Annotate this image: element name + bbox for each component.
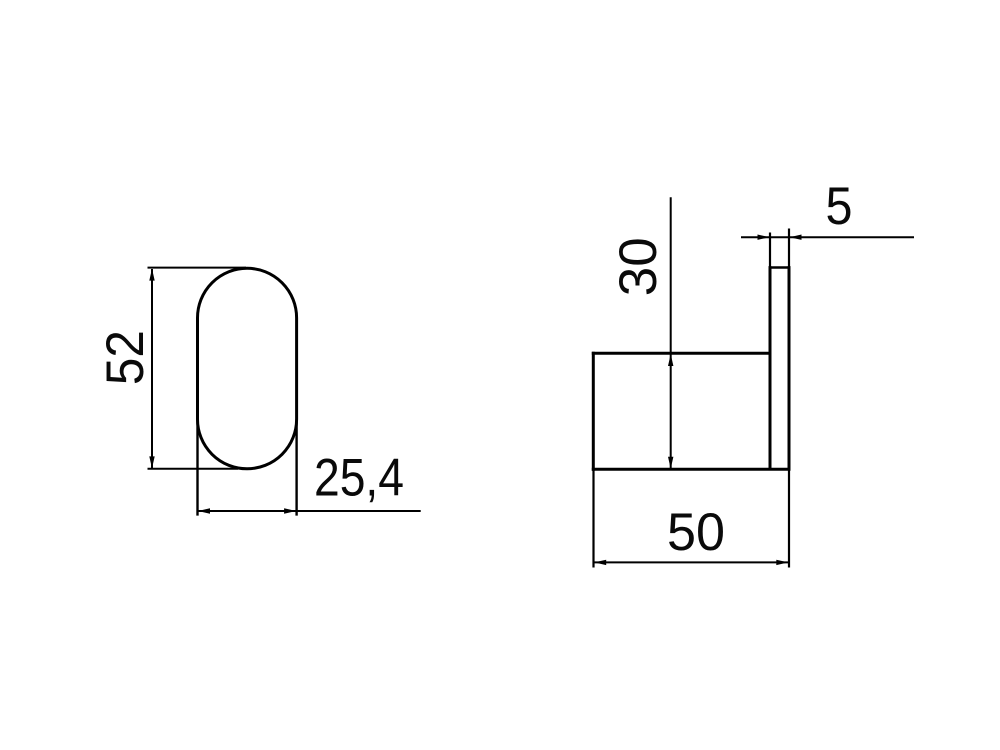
dimension line 50 (594, 560, 790, 565)
front view: oval hook plate outline (198, 268, 297, 469)
side view: wall plate top edge (769, 266, 791, 269)
extension line left of dimension 5 (769, 233, 771, 267)
extension line right of dimension 50 (788, 470, 790, 568)
extension line right of dimension 5 (788, 229, 790, 267)
dimension label 30 (rotated) (609, 237, 668, 296)
svg-text:5: 5 (826, 177, 853, 236)
dimension label 52 (rotated) (96, 330, 155, 385)
svg-text:50: 50 (667, 503, 725, 562)
svg-text:30: 30 (609, 237, 668, 296)
dimension label 50 (667, 503, 725, 562)
extension line left of dimension 50 (592, 470, 594, 568)
dimension line 25,4 with trailing leader (198, 508, 421, 513)
side view: hook body outline (592, 352, 791, 471)
svg-text:52: 52 (96, 330, 155, 385)
dimension line 30 (668, 197, 673, 468)
extension line bottom of dimension 52 (148, 468, 239, 470)
extension line top of dimension 52 (148, 267, 247, 269)
extension line left of dimension 25,4 (196, 419, 198, 516)
svg-text:25,4: 25,4 (314, 449, 404, 508)
dimension label 25,4 (314, 449, 404, 508)
extension line right of dimension 25,4 (295, 419, 297, 516)
dimension line 5 (741, 235, 914, 240)
dimension line 52 (149, 269, 154, 469)
dimension label 5 (826, 177, 853, 236)
side view: wall plate right edge (788, 266, 791, 469)
side view: wall plate left edge (769, 266, 772, 469)
